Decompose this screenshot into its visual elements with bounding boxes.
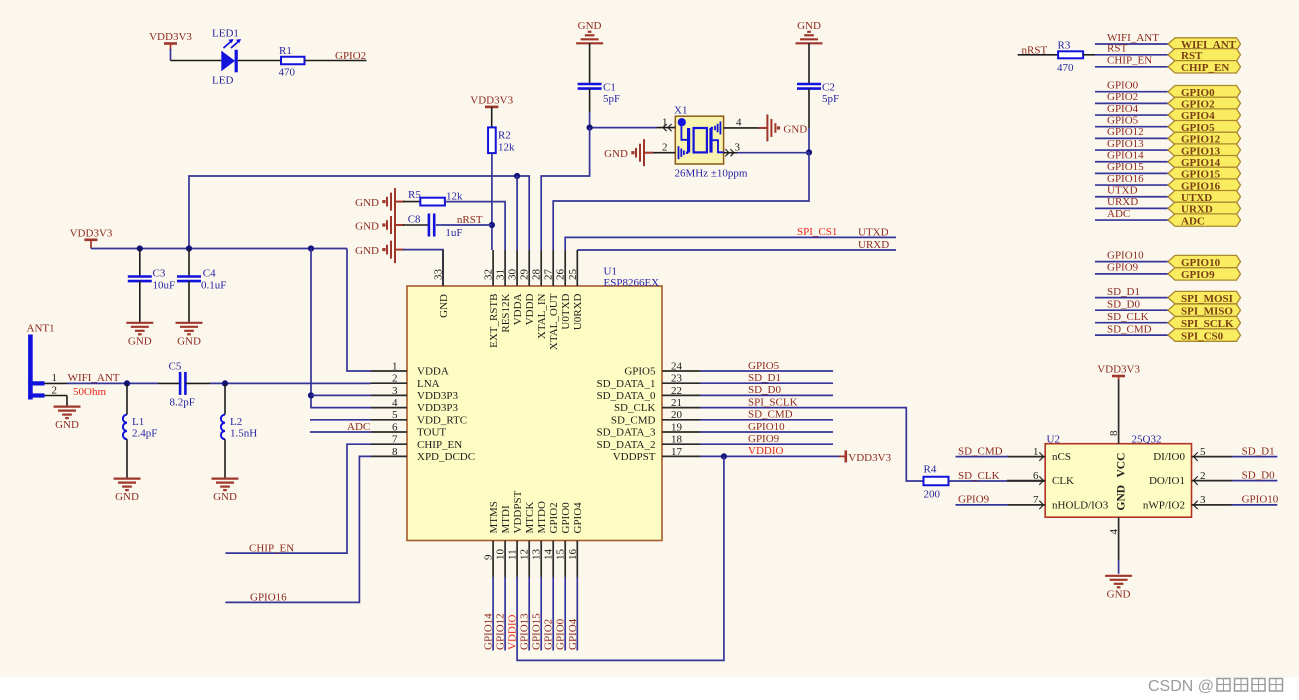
pin 2 of U1 (LNA) — [371, 373, 440, 390]
svg-text:15: 15 — [555, 549, 567, 561]
svg-text:C4: C4 — [203, 268, 216, 280]
wire — [185, 382, 210, 384]
port UTXD — [1168, 191, 1241, 204]
svg-text:U0RXD: U0RXD — [572, 293, 584, 330]
svg-text:GPIO2: GPIO2 — [335, 50, 366, 62]
svg-text:GPIO12: GPIO12 — [495, 613, 507, 650]
wire — [1083, 54, 1095, 56]
svg-text:GPIO2: GPIO2 — [543, 619, 555, 650]
pin 16 of U1 (GPIO4) — [567, 502, 584, 577]
capacitor C2 — [797, 84, 821, 89]
svg-text:WIFI_ANT: WIFI_ANT — [68, 372, 120, 384]
svg-text:GND: GND — [1107, 588, 1131, 600]
svg-text:GND: GND — [604, 148, 628, 160]
wire SD_CMD stub — [700, 419, 833, 421]
svg-text:LED1: LED1 — [212, 28, 239, 40]
wire — [238, 60, 281, 62]
svg-text:SD_CMD: SD_CMD — [748, 409, 793, 421]
ground (ANT1) — [54, 407, 81, 432]
svg-text:VDD3V3: VDD3V3 — [848, 452, 891, 464]
svg-text:VCC: VCC — [1115, 453, 1127, 478]
svg-text:EXT_RSTB: EXT_RSTB — [488, 294, 500, 348]
capacitor C4 — [177, 277, 201, 282]
ground (X1 pin 4) — [758, 114, 807, 141]
svg-text:U2: U2 — [1047, 433, 1060, 445]
svg-text:GPIO16: GPIO16 — [1107, 173, 1144, 185]
svg-text:VDD3P3: VDD3P3 — [417, 402, 458, 414]
wire CHIP_EN — [225, 444, 371, 553]
ground (above C2) — [796, 20, 823, 44]
svg-text:CLK: CLK — [1052, 475, 1074, 487]
svg-text:GPIO15: GPIO15 — [531, 613, 543, 650]
svg-text:10: 10 — [495, 549, 507, 561]
svg-text:SPI_CS0: SPI_CS0 — [1181, 330, 1224, 342]
svg-text:25Q32: 25Q32 — [1132, 433, 1162, 445]
svg-text:GPIO4: GPIO4 — [567, 618, 579, 650]
port ADC — [1168, 214, 1241, 227]
resistor R1 — [281, 57, 305, 65]
ground (U2) — [1105, 576, 1132, 601]
wire SD_D1 stub — [1232, 456, 1278, 458]
svg-text:SD_D1: SD_D1 — [1107, 286, 1140, 298]
svg-text:4: 4 — [1108, 529, 1120, 535]
svg-text:SPI_SCLK: SPI_SCLK — [748, 396, 798, 408]
wire — [139, 281, 141, 323]
wire GPIO4 stub — [576, 577, 578, 651]
pin 19 of U1 (SD_DATA_3) — [596, 421, 700, 438]
svg-text:22: 22 — [671, 385, 682, 397]
svg-text:GPIO4: GPIO4 — [1107, 103, 1139, 115]
pin 22 of U1 (SD_DATA_0) — [596, 385, 700, 402]
svg-text:GND: GND — [438, 294, 450, 318]
svg-text:UTXD: UTXD — [858, 227, 889, 239]
node nRST junction — [489, 222, 495, 228]
pin 7 of U1 (CHIP_EN) — [371, 434, 462, 451]
svg-text:L1: L1 — [132, 416, 144, 428]
svg-text:SD_D1: SD_D1 — [1242, 445, 1275, 457]
svg-text:30: 30 — [507, 269, 519, 281]
svg-text:GPIO0: GPIO0 — [560, 502, 572, 534]
wire GPIO5 stub — [700, 370, 833, 372]
port URXD — [1168, 202, 1241, 215]
wire GPIO10 — [1095, 261, 1168, 263]
svg-text:R1: R1 — [279, 45, 292, 57]
svg-text:ADC: ADC — [1107, 208, 1130, 220]
svg-text:11: 11 — [507, 549, 519, 560]
svg-text:6: 6 — [392, 421, 398, 433]
svg-text:GPIO10: GPIO10 — [1242, 494, 1279, 506]
pin 18 of U1 (SD_DATA_2) — [596, 434, 700, 451]
wire GPIO14 stub — [492, 577, 494, 651]
svg-text:1: 1 — [52, 372, 58, 384]
svg-text:R4: R4 — [924, 464, 937, 476]
ground (above C1) — [576, 20, 603, 44]
pin 3 of X1 — [724, 141, 741, 156]
antenna ANT1 — [28, 335, 44, 400]
pin 31 of U1 (RES12K) — [495, 250, 512, 333]
pin 5 of U2 (DI/IO0) — [1153, 446, 1231, 463]
svg-text:C3: C3 — [153, 268, 166, 280]
pin 11 of U1 (VDDPST) — [507, 490, 524, 577]
svg-text:SD_CLK: SD_CLK — [614, 402, 656, 414]
wire GPIO5 — [1095, 126, 1168, 128]
port GPIO9 — [1168, 268, 1241, 281]
svg-text:GPIO0: GPIO0 — [1107, 80, 1139, 92]
svg-text:SPI_CS1: SPI_CS1 — [797, 226, 837, 238]
wire GPIO16 — [1095, 184, 1168, 186]
pin 6 of U2 (CLK) — [1007, 470, 1074, 487]
svg-text:C8: C8 — [408, 214, 421, 226]
wire VDD3P3 branch — [311, 249, 371, 408]
pin 25 of U1 (U0RXD) — [567, 250, 584, 330]
svg-text:31: 31 — [495, 269, 507, 280]
wire — [949, 480, 1009, 482]
svg-text:470: 470 — [279, 67, 296, 79]
svg-text:ADC: ADC — [1181, 215, 1205, 227]
node XTAL_IN junction — [587, 125, 593, 131]
pin 4 of U1 (VDD3P3) — [371, 397, 458, 414]
svg-text:SD_D0: SD_D0 — [1107, 298, 1141, 310]
svg-text:SD_D1: SD_D1 — [748, 372, 781, 384]
resistor R3 — [1058, 51, 1083, 58]
svg-text:GND: GND — [355, 220, 379, 232]
wire SD_D0 — [1095, 309, 1168, 311]
svg-text:CSDN @: CSDN @ — [1148, 678, 1214, 695]
svg-text:19: 19 — [671, 421, 683, 433]
wire SD_D1 stub — [700, 382, 833, 384]
svg-text:GPIO5: GPIO5 — [624, 366, 656, 378]
svg-text:DO/IO1: DO/IO1 — [1149, 475, 1185, 487]
power VDD3V3 (rail) — [70, 228, 113, 249]
port CHIP_EN — [1168, 61, 1241, 74]
wire — [589, 43, 591, 84]
svg-text:C2: C2 — [822, 82, 835, 94]
IC U1 ESP8266EX body — [407, 286, 662, 541]
port GPIO0 — [1168, 86, 1241, 99]
port GPIO5 — [1168, 121, 1241, 134]
pin 13 of U1 (MTDO) — [531, 501, 548, 577]
ground (C8) — [355, 212, 404, 239]
svg-text:VDD3P3: VDD3P3 — [417, 390, 458, 402]
port GPIO2 — [1168, 97, 1241, 110]
svg-text:U1: U1 — [604, 266, 617, 278]
svg-text:2.4pF: 2.4pF — [132, 427, 157, 439]
svg-text:CHIP_EN: CHIP_EN — [1107, 55, 1152, 67]
svg-text:nCS: nCS — [1052, 451, 1071, 463]
resistor R2 — [488, 127, 496, 153]
pin 1 of ANT1 — [45, 372, 68, 384]
pin 32 of U1 (EXT_RSTB) — [483, 250, 500, 348]
svg-text:SD_DATA_1: SD_DATA_1 — [596, 378, 655, 390]
svg-text:17: 17 — [671, 446, 683, 458]
wire — [224, 383, 226, 414]
svg-text:12: 12 — [519, 549, 531, 560]
port GPIO15 — [1168, 167, 1241, 180]
svg-text:GPIO9: GPIO9 — [748, 433, 780, 445]
svg-text:24: 24 — [671, 360, 683, 372]
svg-text:SD_D0: SD_D0 — [1242, 469, 1276, 481]
wire SPI_SCLK to R4 — [700, 408, 924, 481]
svg-text:GPIO9: GPIO9 — [958, 494, 990, 506]
svg-text:VDDA: VDDA — [512, 293, 524, 325]
svg-text:1: 1 — [1033, 446, 1039, 458]
pin 2 of X1 — [652, 141, 675, 153]
svg-text:SD_DATA_2: SD_DATA_2 — [596, 439, 655, 451]
svg-text:SD_D0: SD_D0 — [748, 384, 782, 396]
svg-text:GPIO14: GPIO14 — [1107, 150, 1144, 162]
svg-text:GND: GND — [797, 20, 821, 32]
port RST — [1168, 49, 1241, 62]
svg-text:GPIO5: GPIO5 — [1107, 115, 1139, 127]
wire SD_D0 stub — [1232, 480, 1278, 482]
svg-text:nWP/IO2: nWP/IO2 — [1143, 500, 1185, 512]
svg-text:29: 29 — [519, 269, 531, 281]
svg-text:XTAL_IN: XTAL_IN — [536, 293, 548, 339]
svg-text:6: 6 — [1033, 470, 1039, 482]
wire — [737, 152, 808, 154]
wire GPIO2 stub — [552, 577, 554, 651]
svg-text:470: 470 — [1057, 62, 1074, 74]
power VDD3V3 (R2) — [470, 94, 513, 107]
pin 28 of U1 (XTAL_IN) — [531, 250, 548, 339]
svg-text:33: 33 — [433, 269, 445, 281]
pin 27 of U1 (XTAL_OUT) — [543, 250, 560, 350]
svg-text:3: 3 — [735, 141, 741, 153]
wire — [311, 394, 371, 396]
wire — [305, 60, 367, 62]
power VDD3V3 (LED) — [149, 31, 192, 50]
wire — [66, 396, 68, 408]
svg-text:2: 2 — [392, 373, 398, 385]
ground (L1) — [114, 479, 141, 504]
inductor — [221, 415, 225, 440]
wire — [541, 128, 589, 250]
svg-text:GPIO10: GPIO10 — [748, 421, 785, 433]
svg-text:1: 1 — [392, 360, 398, 372]
pin 23 of U1 (SD_DATA_1) — [596, 373, 700, 390]
svg-text:GND: GND — [578, 20, 602, 32]
svg-text:GPIO2: GPIO2 — [548, 502, 560, 533]
svg-text:7: 7 — [392, 434, 398, 446]
svg-text:L2: L2 — [230, 416, 242, 428]
ground (R5) — [355, 188, 404, 215]
svg-text:nRST: nRST — [457, 214, 483, 226]
port GPIO4 — [1168, 109, 1241, 122]
svg-text:5: 5 — [1200, 446, 1206, 458]
svg-text:GND: GND — [115, 491, 139, 503]
svg-text:URXD: URXD — [858, 239, 889, 251]
svg-text:SD_DATA_0: SD_DATA_0 — [596, 390, 656, 402]
capacitor C1 — [578, 84, 602, 89]
wire GPIO12 — [1095, 137, 1168, 139]
svg-text:VDD_RTC: VDD_RTC — [417, 414, 467, 426]
svg-text:SD_CMD: SD_CMD — [958, 445, 1003, 457]
svg-text:CHIP_EN: CHIP_EN — [249, 542, 294, 554]
wire VDDIO — [700, 455, 839, 457]
svg-text:SD_CMD: SD_CMD — [611, 414, 656, 426]
wire WIFI_ANT — [1095, 43, 1168, 45]
svg-text:GPIO10: GPIO10 — [1107, 249, 1144, 261]
svg-text:VDDIO: VDDIO — [507, 615, 519, 650]
svg-text:5pF: 5pF — [603, 93, 620, 105]
svg-text:VDDPST: VDDPST — [613, 451, 656, 463]
ground (L2) — [212, 479, 239, 504]
svg-text:10uF: 10uF — [153, 280, 176, 292]
wire GPIO9 stub — [700, 443, 833, 445]
svg-text:12k: 12k — [498, 142, 515, 154]
svg-text:GND: GND — [355, 245, 379, 257]
svg-text:GND: GND — [1115, 485, 1127, 511]
wire — [170, 49, 172, 61]
svg-text:18: 18 — [671, 434, 683, 446]
svg-text:GPIO13: GPIO13 — [1107, 138, 1144, 150]
pin 8 of U1 (XPD_DCDC) — [371, 446, 475, 463]
node XTAL_OUT junction — [806, 149, 812, 155]
svg-text:26MHz ±10ppm: 26MHz ±10ppm — [675, 168, 748, 180]
svg-text:GPIO10: GPIO10 — [1181, 257, 1221, 269]
wire — [445, 202, 505, 250]
wire — [171, 60, 222, 62]
wire — [516, 176, 518, 250]
svg-text:UTXD: UTXD — [1107, 185, 1138, 197]
wire — [590, 127, 657, 129]
wire — [403, 201, 420, 203]
svg-text:8: 8 — [1108, 430, 1120, 436]
ground (U1 pin 33) — [355, 236, 404, 263]
svg-text:GPIO0: GPIO0 — [555, 618, 567, 650]
wire — [491, 107, 493, 128]
wire GPIO10 stub — [1232, 504, 1278, 506]
port GPIO12 — [1168, 132, 1241, 145]
svg-text:1.5nH: 1.5nH — [230, 427, 257, 439]
svg-text:TOUT: TOUT — [417, 427, 446, 439]
svg-text:SD_CMD: SD_CMD — [1107, 323, 1152, 335]
wire GPIO16 — [225, 456, 371, 602]
node VDD3P3 junction — [308, 245, 314, 251]
svg-text:5pF: 5pF — [822, 93, 839, 105]
svg-text:MTCK: MTCK — [524, 502, 536, 534]
pin 26 of U1 (U0TXD) — [555, 250, 572, 330]
wire SD_CLK — [1095, 322, 1168, 324]
svg-text:23: 23 — [671, 373, 683, 385]
svg-text:27: 27 — [543, 269, 555, 281]
port WIFI_ANT — [1168, 38, 1241, 51]
wire GPIO12 stub — [504, 577, 506, 651]
node VDD3P3 pin3 junction — [308, 392, 314, 398]
svg-text:50Ohm: 50Ohm — [73, 386, 106, 398]
port SPI_MOSI — [1168, 291, 1241, 304]
node VDDA junction — [514, 173, 520, 179]
port SPI_CS0 — [1168, 329, 1241, 342]
wire GPIO10 stub — [700, 431, 833, 433]
svg-text:VDDA: VDDA — [417, 366, 449, 378]
svg-text:C5: C5 — [169, 360, 182, 372]
wire — [565, 237, 896, 250]
svg-text:GPIO4: GPIO4 — [572, 502, 584, 534]
svg-text:XPD_DCDC: XPD_DCDC — [417, 451, 475, 463]
pin 3 of U1 (VDD3P3) — [371, 385, 458, 402]
svg-text:R5: R5 — [408, 189, 421, 201]
svg-text:14: 14 — [543, 549, 555, 561]
svg-text:CHIP_EN: CHIP_EN — [417, 439, 462, 451]
pin 7 of U2 (nHOLD/IO3) — [1007, 494, 1109, 511]
svg-text:7: 7 — [1033, 494, 1039, 506]
wire — [577, 249, 896, 251]
svg-text:U0TXD: U0TXD — [560, 293, 572, 329]
svg-text:200: 200 — [924, 489, 941, 501]
svg-text:1: 1 — [662, 116, 668, 128]
port GPIO14 — [1168, 156, 1241, 169]
svg-text:GND: GND — [177, 335, 201, 347]
svg-text:X1: X1 — [674, 105, 687, 117]
pin 2 of ANT1 — [45, 384, 68, 396]
wire GPIO2 — [1095, 102, 1168, 104]
svg-text:SPI_SCLK: SPI_SCLK — [1181, 318, 1234, 330]
svg-text:R2: R2 — [498, 130, 511, 142]
wire UTXD — [1095, 196, 1168, 198]
port SPI_SCLK — [1168, 317, 1241, 330]
wire — [403, 250, 443, 286]
wire — [310, 419, 371, 421]
svg-text:GPIO15: GPIO15 — [1107, 161, 1144, 173]
svg-text:4: 4 — [736, 117, 742, 129]
pin 1 of U1 (VDDA) — [371, 360, 449, 377]
svg-text:GND: GND — [128, 335, 152, 347]
pin 3 of U2 (nWP/IO2) — [1143, 494, 1232, 511]
svg-text:LNA: LNA — [417, 378, 440, 390]
svg-text:GPIO13: GPIO13 — [519, 613, 531, 650]
wire — [126, 439, 128, 478]
wire — [1118, 560, 1120, 574]
watermark CSDN — [1148, 678, 1283, 695]
wire SD_CMD stub — [956, 456, 1009, 458]
pin 1 of X1 — [657, 116, 675, 131]
wire — [403, 224, 429, 226]
pin 4 of X1 — [724, 117, 760, 129]
svg-text:8.2pF: 8.2pF — [170, 397, 195, 409]
capacitor C3 — [128, 277, 152, 282]
wire URXD — [1095, 207, 1168, 209]
pin 6 of U1 (TOUT) — [371, 421, 446, 438]
svg-text:32: 32 — [483, 269, 495, 280]
pin 30 of U1 (VDDA) — [507, 250, 524, 325]
wire VDDIO route — [517, 456, 724, 660]
svg-text:SPI_MOSI: SPI_MOSI — [1181, 293, 1233, 305]
svg-text:GPIO5: GPIO5 — [748, 360, 780, 372]
svg-text:GND: GND — [55, 419, 79, 431]
svg-text:ESP8266EX: ESP8266EX — [604, 277, 660, 289]
wire — [1018, 54, 1058, 56]
wire — [808, 43, 810, 84]
ground (X1 pin 2) — [604, 139, 653, 166]
wire WIFI_ANT — [67, 382, 158, 384]
svg-text:2: 2 — [1200, 470, 1206, 482]
svg-text:4: 4 — [392, 397, 398, 409]
svg-text:GPIO16: GPIO16 — [250, 592, 287, 604]
svg-text:RES12K: RES12K — [500, 293, 512, 332]
wire GPIO14 — [1095, 161, 1168, 163]
wire GPIO13 stub — [528, 577, 530, 651]
svg-text:GPIO12: GPIO12 — [1107, 126, 1144, 138]
ground (C3) — [126, 323, 153, 348]
pin 4 of U2 (GND) — [1108, 485, 1127, 560]
capacitor C8 — [429, 214, 434, 237]
svg-text:GPIO2: GPIO2 — [1107, 91, 1138, 103]
svg-text:GPIO9: GPIO9 — [1107, 262, 1139, 274]
port SPI_MISO — [1168, 304, 1241, 317]
svg-text:13: 13 — [531, 549, 543, 561]
svg-text:R3: R3 — [1058, 40, 1071, 52]
